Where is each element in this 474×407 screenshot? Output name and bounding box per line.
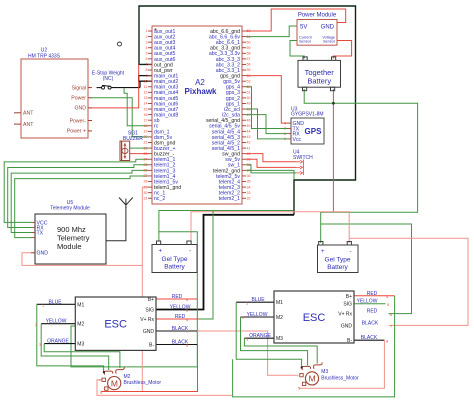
svg-text:18: 18 bbox=[144, 124, 148, 128]
svg-text:Power +: Power + bbox=[67, 129, 86, 135]
svg-text:RED: RED bbox=[175, 314, 186, 320]
wire green battery2 to right ESC V+ Rx bbox=[321, 224, 412, 314]
pin 49 gps_1 bbox=[226, 101, 251, 107]
svg-text:4: 4 bbox=[146, 46, 148, 50]
wire green telem1_4 to telemetry pin4 bbox=[15, 176, 148, 238]
wire right ESC SIG green stub bbox=[354, 303, 386, 305]
wire left ESC M2 to motor (green) bbox=[41, 324, 109, 370]
wire green telem1_1 to telemetry VCC bbox=[4, 159, 148, 222]
svg-text:Power: Power bbox=[71, 96, 86, 102]
pin 35 telem2_4 bbox=[219, 179, 251, 185]
pin 62 abc_6.6_gnd bbox=[210, 29, 251, 35]
wire left ESC B+ red stub bbox=[156, 298, 197, 300]
svg-text:2: 2 bbox=[284, 132, 286, 136]
svg-text:(NC): (NC) bbox=[103, 76, 114, 82]
pin 36 telem2_5v bbox=[216, 174, 250, 180]
svg-text:BLUE: BLUE bbox=[251, 297, 265, 303]
wire red sw_gnd to switch pin 1 bbox=[246, 154, 296, 162]
pin 45 serial_4/5_5v bbox=[209, 124, 250, 130]
svg-text:Module: Module bbox=[57, 242, 82, 251]
svg-text:32: 32 bbox=[247, 196, 251, 200]
svg-text:5: 5 bbox=[100, 391, 102, 395]
svg-text:ANT: ANT bbox=[23, 122, 34, 128]
svg-text:GND: GND bbox=[37, 251, 49, 257]
pin 4 aux_out4 bbox=[146, 46, 176, 52]
pin 52 gps_4 bbox=[226, 85, 251, 91]
pin 12 main_out4 bbox=[144, 90, 179, 96]
pin 29 telem1_gnd bbox=[144, 185, 182, 191]
svg-text:24: 24 bbox=[144, 157, 148, 161]
wire right ESC B- black stub and pink to motor M3 bbox=[299, 340, 384, 388]
pin 39 sw_5v bbox=[225, 157, 250, 163]
svg-text:Pixhawk: Pixhawk bbox=[184, 87, 217, 96]
pin 3 aux_out3 bbox=[146, 40, 176, 46]
svg-text:19: 19 bbox=[144, 130, 148, 134]
wire left ESC M1 to motor (green) bbox=[37, 304, 104, 372]
svg-text:-: - bbox=[189, 249, 191, 255]
svg-text:Telemetry Module: Telemetry Module bbox=[50, 206, 90, 212]
svg-text:2: 2 bbox=[146, 35, 148, 39]
svg-text:Power Module: Power Module bbox=[298, 13, 337, 19]
wire buzzer plus (green) bbox=[130, 147, 148, 149]
svg-text:52: 52 bbox=[247, 85, 251, 89]
svg-text:+: + bbox=[321, 249, 325, 255]
wire red sw_5v to switch pin 2 bbox=[246, 159, 296, 167]
wire pink telem1_gnd to ground rail bbox=[142, 187, 148, 265]
svg-text:36: 36 bbox=[247, 174, 251, 178]
wire antenna to telemetry module (black) bbox=[106, 207, 126, 241]
svg-text:30: 30 bbox=[144, 191, 148, 195]
svg-text:55: 55 bbox=[247, 68, 251, 72]
pin 1 aux_out1 bbox=[146, 29, 176, 35]
pin 46 serial_4/5_gnd bbox=[206, 118, 251, 124]
wire green sw_1 to switch pin 3 bbox=[246, 165, 296, 173]
wire green abc_6.6_6.6v to power module 5V bbox=[246, 26, 297, 37]
pin 26 telem1_3 bbox=[144, 168, 176, 174]
svg-text:31: 31 bbox=[144, 196, 148, 200]
wire left ESC V+ R red stub bbox=[156, 318, 199, 320]
pin 59 abc_3.3_gnd bbox=[210, 46, 251, 52]
svg-text:YELLOW: YELLOW bbox=[46, 319, 67, 325]
svg-text:SWITCH: SWITCH bbox=[293, 155, 313, 161]
wire rc green from e-stop area bbox=[124, 88, 148, 126]
wire red abc_6.6_gnd to power module GND bbox=[246, 9, 346, 31]
battery B1 Together Battery bbox=[298, 57, 341, 91]
svg-text:V+ Rx: V+ Rx bbox=[338, 312, 352, 318]
svg-text:41: 41 bbox=[247, 146, 251, 150]
antenna AN1 bbox=[119, 198, 133, 209]
wire green i2c_sda to GPS RX bbox=[246, 115, 287, 134]
svg-text:8: 8 bbox=[146, 68, 148, 72]
wire left ESC M3 to motor (green) bbox=[44, 344, 120, 368]
pin 22 buzzer_+ bbox=[144, 146, 176, 152]
svg-text:Battery: Battery bbox=[164, 264, 185, 271]
op-amp U2 HM TRP 433S radio module bbox=[14, 48, 92, 139]
wire red voltage sensor to Together Battery minus bbox=[333, 41, 351, 59]
svg-text:GND: GND bbox=[143, 329, 155, 335]
buzzer SG1 bbox=[120, 131, 143, 161]
wire left ESC B- black stub and red to motor M2 bbox=[101, 345, 198, 392]
motor M2 Brushless_Motor bbox=[99, 367, 162, 395]
svg-text:49: 49 bbox=[247, 102, 251, 106]
svg-text:1: 1 bbox=[284, 137, 286, 141]
svg-text:Gel Type: Gel Type bbox=[325, 257, 351, 264]
wire red battery2 minus bus to right ESC GND bbox=[349, 238, 468, 325]
pin 21 dsm_gnd bbox=[144, 140, 176, 146]
svg-text:M3: M3 bbox=[321, 369, 328, 375]
svg-text:43: 43 bbox=[247, 135, 251, 139]
svg-text:Brushless_Motor: Brushless_Motor bbox=[124, 380, 162, 386]
svg-text:29: 29 bbox=[144, 185, 148, 189]
svg-text:BLACK: BLACK bbox=[361, 335, 378, 341]
svg-text:BLACK: BLACK bbox=[362, 320, 379, 326]
svg-text:26: 26 bbox=[144, 169, 148, 173]
pin 23 buzzer_- bbox=[144, 152, 175, 158]
wire right ESC M1 to motor (green) bbox=[236, 302, 301, 368]
wire green telem1_3 to telemetry TX bbox=[11, 170, 148, 232]
battery B2 Gel Type Battery left bbox=[152, 241, 197, 273]
svg-text:Signal: Signal bbox=[72, 85, 86, 91]
pin 61 abc_6.6_6.6v bbox=[209, 34, 251, 40]
pin 32 telem2_1 bbox=[219, 196, 251, 202]
svg-text:Sensor: Sensor bbox=[323, 40, 336, 44]
pin 8 out_pwr bbox=[146, 68, 173, 74]
pin 24 telem1_1 bbox=[144, 157, 176, 163]
svg-text:14: 14 bbox=[144, 102, 148, 106]
svg-text:ORANGE: ORANGE bbox=[249, 333, 271, 339]
svg-text:37: 37 bbox=[247, 169, 251, 173]
svg-text:V+ Rx: V+ Rx bbox=[140, 317, 154, 323]
svg-text:ESC: ESC bbox=[303, 312, 326, 324]
pin 60 abc_6.6_1 bbox=[216, 40, 251, 46]
svg-text:GND: GND bbox=[74, 106, 86, 112]
svg-text:44: 44 bbox=[247, 130, 251, 134]
wire telemetry gnd pink down to motor rail bbox=[22, 253, 142, 392]
svg-text:35: 35 bbox=[247, 180, 251, 184]
wire pink motor M2 left tab loop along bottom bbox=[97, 380, 233, 396]
svg-text:33: 33 bbox=[247, 191, 251, 195]
pin 16 main_out8 bbox=[144, 113, 179, 119]
pin 51 gps_3 bbox=[226, 90, 251, 96]
svg-text:47: 47 bbox=[247, 113, 251, 117]
svg-text:B+: B+ bbox=[346, 294, 352, 300]
pin 53 gps_5v bbox=[223, 79, 250, 85]
pin 11 main_out3 bbox=[144, 85, 179, 91]
pin 30 nc_1 bbox=[144, 191, 166, 197]
svg-text:5: 5 bbox=[298, 386, 300, 390]
svg-text:SIG: SIG bbox=[343, 302, 352, 308]
svg-text:58: 58 bbox=[247, 52, 251, 56]
svg-text:ESC: ESC bbox=[104, 319, 127, 331]
wire red gps_gnd to GPS GND bbox=[246, 76, 287, 124]
svg-text:GPS: GPS bbox=[305, 127, 323, 136]
svg-text:ORANGE: ORANGE bbox=[47, 339, 69, 345]
svg-text:SIG: SIG bbox=[145, 308, 154, 314]
svg-text:Sensor: Sensor bbox=[299, 40, 312, 44]
svg-text:53: 53 bbox=[247, 79, 251, 83]
pin 41 serial_4/5_1 bbox=[212, 146, 251, 152]
svg-text:M2: M2 bbox=[77, 322, 84, 328]
svg-text:RED: RED bbox=[367, 309, 378, 315]
svg-text:56: 56 bbox=[247, 63, 251, 67]
svg-text:11: 11 bbox=[144, 85, 148, 89]
svg-text:telem2_1: telem2_1 bbox=[219, 196, 240, 202]
svg-text:40: 40 bbox=[247, 152, 251, 156]
wire green telem2_gnd to battery1 plus riser bbox=[246, 170, 294, 179]
svg-text:M2: M2 bbox=[276, 315, 283, 321]
svg-text:1: 1 bbox=[146, 29, 148, 33]
wire U2 power to dsm_5v (green) bbox=[92, 98, 148, 137]
svg-text:34: 34 bbox=[247, 185, 251, 189]
svg-text:13: 13 bbox=[144, 96, 148, 100]
wire right ESC B+ red stub and green loop bbox=[233, 296, 395, 397]
svg-text:B-: B- bbox=[347, 338, 352, 344]
svg-text:60: 60 bbox=[247, 40, 251, 44]
pin 2 aux_out2 bbox=[146, 34, 176, 40]
svg-text:16: 16 bbox=[144, 113, 148, 117]
pin 48 i2c_scl bbox=[224, 107, 250, 113]
pin 5 aux_out5 bbox=[146, 51, 176, 57]
pin 6 aux_out6 bbox=[146, 57, 176, 63]
wire right ESC M2 to motor (green) bbox=[241, 317, 308, 366]
svg-text:ANT: ANT bbox=[23, 111, 34, 117]
svg-text:50: 50 bbox=[247, 96, 251, 100]
svg-text:22: 22 bbox=[144, 146, 148, 150]
svg-text:Power-: Power- bbox=[70, 118, 87, 124]
pin 15 main_out7 bbox=[144, 107, 179, 113]
pin 17 sb bbox=[144, 118, 160, 124]
svg-text:B+: B+ bbox=[148, 297, 154, 303]
svg-text:12: 12 bbox=[144, 91, 148, 95]
pin 13 main_out5 bbox=[144, 96, 179, 102]
svg-text:6: 6 bbox=[146, 57, 148, 61]
wire U2 signal through e-stop (black) bbox=[97, 87, 141, 89]
pin 28 telem1_5v bbox=[144, 179, 179, 185]
wire green battery1 to left ESC B+ and loop bbox=[71, 232, 197, 367]
svg-text:RED: RED bbox=[172, 294, 183, 300]
pin 34 telem2_3 bbox=[219, 185, 251, 191]
wire right ESC M3 to motor (green) bbox=[244, 338, 317, 363]
svg-text:nc_2: nc_2 bbox=[154, 196, 165, 202]
pin 9 main_out1 bbox=[146, 74, 179, 80]
switch U4 SWITCH bbox=[293, 150, 313, 176]
svg-text:25: 25 bbox=[144, 163, 148, 167]
pin 47 i2c_sda bbox=[222, 113, 250, 119]
pin 33 telem2_2 bbox=[219, 191, 251, 197]
svg-text:4: 4 bbox=[284, 121, 286, 125]
svg-text:Battery: Battery bbox=[327, 264, 348, 271]
pin 57 abc_3.3_3 bbox=[216, 57, 251, 63]
op-amp A2 Pixhawk flight controller bbox=[152, 26, 242, 204]
svg-text:62: 62 bbox=[247, 29, 251, 33]
pin 37 telem2_gnd bbox=[213, 168, 251, 174]
wire green i2c_scl to GPS Vcc bbox=[246, 109, 287, 139]
svg-text:61: 61 bbox=[247, 35, 251, 39]
wire U2 GND to out_gnd (red) bbox=[92, 64, 139, 107]
pin 56 abc_3.3_2 bbox=[216, 62, 251, 68]
wire pink battery1 minus bus to battery2 minus bbox=[191, 212, 349, 243]
svg-text:15: 15 bbox=[144, 107, 148, 111]
svg-text:45: 45 bbox=[247, 124, 251, 128]
svg-text:51: 51 bbox=[247, 91, 251, 95]
svg-text:38: 38 bbox=[247, 163, 251, 167]
svg-text:27: 27 bbox=[144, 174, 148, 178]
svg-text:B-: B- bbox=[149, 343, 154, 349]
svg-text:59: 59 bbox=[247, 46, 251, 50]
pin 44 serial_4/5_4 bbox=[212, 129, 251, 135]
svg-text:YELLOW: YELLOW bbox=[357, 299, 378, 305]
pin 10 main_out2 bbox=[144, 79, 179, 85]
svg-text:-: - bbox=[350, 249, 352, 255]
svg-text:M1: M1 bbox=[77, 302, 84, 308]
op-amp U5 900 Mhz Telemetry Module bbox=[31, 200, 106, 264]
junction dot bbox=[332, 102, 335, 105]
pin 14 main_out6 bbox=[144, 101, 179, 107]
svg-text:39: 39 bbox=[247, 157, 251, 161]
power module PS1 bbox=[297, 13, 337, 46]
svg-text:17: 17 bbox=[144, 118, 148, 122]
svg-text:TX: TX bbox=[37, 230, 44, 236]
wire red Together Battery minus down to minus bus bbox=[332, 89, 334, 212]
svg-text:A2: A2 bbox=[195, 78, 205, 87]
pin 58 abc_3.3_3.3v bbox=[209, 51, 251, 57]
svg-text:5: 5 bbox=[146, 52, 148, 56]
svg-text:GND: GND bbox=[341, 323, 353, 329]
pin 38 sw_1 bbox=[228, 163, 251, 169]
svg-text:M: M bbox=[309, 374, 316, 384]
node unconnected junction circle bbox=[118, 42, 122, 46]
svg-text:48: 48 bbox=[247, 107, 251, 111]
svg-text:57: 57 bbox=[247, 57, 251, 61]
pin 50 gps_2 bbox=[226, 96, 251, 102]
svg-text:10: 10 bbox=[144, 79, 148, 83]
wire green Together Battery plus to Gel battery 2 plus bbox=[304, 89, 417, 243]
svg-text:+: + bbox=[159, 249, 163, 255]
wire green current sensor to Together Battery plus bbox=[290, 41, 304, 59]
switch S1 E-Stop Weight (NC) bbox=[92, 71, 125, 90]
op-amp ESC right bbox=[242, 291, 393, 344]
svg-text:3: 3 bbox=[284, 127, 286, 131]
wire green telem1_2 to telemetry RX bbox=[8, 165, 148, 228]
pin 7 out_gnd bbox=[146, 62, 173, 68]
battery B3 Gel Type Battery right bbox=[318, 242, 359, 273]
wire black main_out loop near Pixhawk bbox=[139, 76, 152, 88]
pin 25 telem1_2 bbox=[144, 163, 176, 169]
pin 40 sw_gnd bbox=[222, 152, 250, 158]
svg-text:M1: M1 bbox=[276, 300, 283, 306]
svg-text:7: 7 bbox=[146, 63, 148, 67]
pin 27 telem1_4 bbox=[144, 174, 176, 180]
motor M3 Brushless_Motor bbox=[297, 362, 360, 390]
wire green battery1 plus riser bbox=[159, 211, 293, 241]
pin 19 dsm_1 bbox=[144, 129, 170, 135]
pin 42 serial_4/5_2 bbox=[212, 140, 251, 146]
pin 20 dsm_5v bbox=[144, 135, 173, 141]
svg-text:M: M bbox=[111, 378, 118, 388]
wire left ESC GND black stub and pink to motor M3 bbox=[156, 331, 297, 375]
svg-text:Gel Type: Gel Type bbox=[162, 256, 188, 263]
svg-text:RED: RED bbox=[367, 291, 378, 297]
svg-text:9: 9 bbox=[146, 74, 148, 78]
svg-text:46: 46 bbox=[247, 118, 251, 122]
pin 54 gps_gnd bbox=[220, 74, 250, 80]
svg-text:5V: 5V bbox=[300, 25, 307, 31]
wire buzzer minus (red) bbox=[130, 153, 148, 155]
svg-text:Battery: Battery bbox=[307, 77, 331, 86]
svg-text:M3: M3 bbox=[77, 342, 84, 348]
wire green gps_4 to GPS TX bbox=[246, 87, 287, 129]
svg-text:M3: M3 bbox=[276, 336, 283, 342]
pin 55 abc_3.3_1 bbox=[216, 68, 251, 74]
svg-text:Vcc: Vcc bbox=[293, 137, 302, 143]
wire ground frame (dark green) Pixhawk out_gnd to battery minus bus bbox=[139, 6, 356, 310]
pin 31 nc_2 bbox=[144, 196, 166, 202]
svg-text:GYGPSV1-8M: GYGPSV1-8M bbox=[291, 112, 324, 118]
svg-text:BLUE: BLUE bbox=[48, 299, 62, 305]
pin 43 serial_4/5_3 bbox=[212, 135, 251, 141]
svg-text:42: 42 bbox=[247, 141, 251, 145]
svg-text:28: 28 bbox=[144, 180, 148, 184]
svg-text:21: 21 bbox=[144, 141, 148, 145]
svg-text:3: 3 bbox=[146, 40, 148, 44]
op-amp U3 GYGPSV1-8M GPS bbox=[284, 107, 324, 145]
svg-text:23: 23 bbox=[144, 152, 148, 156]
svg-text:Brushless_Motor: Brushless_Motor bbox=[321, 375, 359, 381]
svg-text:20: 20 bbox=[144, 135, 148, 139]
pin 18 rc bbox=[144, 124, 159, 130]
wire green battery1 to left ESC V+ R bbox=[199, 211, 214, 320]
op-amp ESC left bbox=[35, 294, 191, 350]
svg-text:YELLOW: YELLOW bbox=[247, 312, 268, 318]
svg-text:54: 54 bbox=[247, 74, 251, 78]
svg-text:GND: GND bbox=[321, 25, 335, 31]
svg-text:M2: M2 bbox=[124, 374, 131, 380]
